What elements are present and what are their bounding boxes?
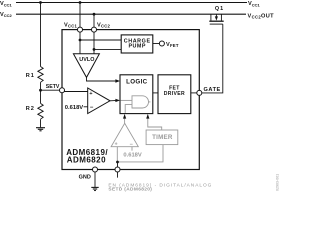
pin GND circle bbox=[93, 167, 98, 172]
wire VCC2 pin drop bbox=[93, 14, 95, 27]
node dot charge pump feed 2 bbox=[93, 48, 96, 51]
gray stub minus input bbox=[131, 147, 133, 151]
resistor R2 bbox=[38, 103, 43, 119]
rail VCC1 bbox=[16, 2, 247, 4]
charge pump block bbox=[121, 35, 153, 53]
IC boundary box ADM6819/ADM6820 bbox=[62, 30, 199, 170]
wire EN node to pin bbox=[117, 162, 119, 167]
svg-text:VCC1: VCC1 bbox=[248, 1, 261, 7]
resistor R1 bbox=[38, 67, 43, 83]
wire UVLO output bbox=[87, 77, 118, 81]
svg-text:0.618V: 0.618V bbox=[123, 153, 142, 159]
pin VCC2 circle bbox=[92, 27, 97, 32]
node dot rail1 at VCC1 pin branch bbox=[79, 1, 82, 4]
wire between R1 and R2 bbox=[40, 82, 42, 103]
svg-text:GND: GND bbox=[79, 174, 91, 180]
svg-text:VFET: VFET bbox=[166, 42, 179, 48]
arrow UVLO into LOGIC bbox=[115, 79, 120, 82]
node dot rail2 at VCC2 pin branch bbox=[93, 13, 96, 16]
wire R1 branch from rail1 bbox=[40, 3, 42, 67]
svg-text:−: − bbox=[90, 105, 94, 111]
wire VCC2 inside drop to UVLO bbox=[93, 32, 95, 54]
wire VCC1 pin drop bbox=[79, 3, 81, 28]
svg-text:SETD (ADM6820): SETD (ADM6820) bbox=[108, 186, 152, 192]
FET DRIVER block bbox=[158, 75, 191, 114]
node dot charge pump feed 1 bbox=[79, 39, 82, 42]
svg-text:VCC2: VCC2 bbox=[97, 22, 111, 28]
LOGIC block bbox=[120, 75, 153, 114]
ground (R2) bbox=[36, 128, 45, 131]
svg-text:VCC2: VCC2 bbox=[0, 12, 13, 18]
pin EN circle bbox=[115, 167, 120, 172]
svg-text:R2: R2 bbox=[26, 106, 35, 112]
arrow comparator into LOGIC bottom bbox=[123, 114, 126, 119]
Q1 source stub bbox=[210, 14, 212, 20]
pin GATE circle bbox=[197, 90, 202, 95]
wire EN pin stub below bbox=[117, 172, 119, 178]
gray AND output stub bbox=[149, 101, 151, 103]
pin VCC1 circle bbox=[78, 27, 83, 32]
gray wire comparator apex up bbox=[124, 118, 126, 123]
svg-text:0.618V: 0.618V bbox=[65, 105, 84, 111]
Q1 body arrow bbox=[215, 14, 217, 17]
arrow comparator into LOGIC bbox=[115, 99, 120, 102]
wire tap to SETV pin bbox=[41, 89, 60, 91]
node dot EN bbox=[116, 161, 119, 164]
rail VCC2 bbox=[16, 13, 246, 15]
pin SETV circle bbox=[60, 88, 65, 93]
svg-text:+: + bbox=[115, 141, 118, 147]
gray wire TIMER top to LOGIC bbox=[148, 118, 162, 130]
svg-text:+: + bbox=[89, 91, 92, 97]
node dot SETV tap bbox=[39, 89, 42, 92]
arrow TIMER into LOGIC bottom bbox=[146, 114, 149, 119]
svg-text:TIMER: TIMER bbox=[152, 134, 173, 141]
wire to charge pump input 2 bbox=[94, 48, 121, 50]
svg-text:VCC2OUT: VCC2OUT bbox=[248, 13, 275, 19]
svg-text:LOGIC: LOGIC bbox=[126, 79, 148, 86]
gray wire inside LOGIC to AND bottom input bbox=[125, 105, 132, 113]
wire charge pump output bbox=[153, 43, 160, 45]
ground (GND pin) bbox=[91, 187, 98, 190]
svg-text:SETV: SETV bbox=[46, 84, 60, 90]
UVLO comparator triangle bbox=[73, 54, 99, 78]
node dot rail1 at R1 branch bbox=[39, 1, 42, 4]
svg-text:02903-001: 02903-001 bbox=[276, 174, 280, 191]
Q1 channel bar bbox=[209, 20, 223, 22]
TIMER block bbox=[146, 130, 178, 145]
wire FET DRIVER to GATE pin bbox=[191, 92, 197, 94]
pin VFET circle bbox=[159, 41, 164, 46]
wire reference to comparator minus input bbox=[84, 106, 88, 108]
Q1 gate bar bbox=[210, 23, 223, 25]
svg-text:DRIVER: DRIVER bbox=[164, 91, 185, 97]
gray comparator (EN/SETD) bbox=[111, 123, 138, 146]
svg-text:UVLO: UVLO bbox=[79, 57, 94, 63]
wire R2 to ground bbox=[40, 119, 42, 127]
wire LOGIC to FET DRIVER bbox=[153, 92, 158, 94]
wire VCC1 inside drop to UVLO bbox=[79, 32, 81, 54]
svg-text:PUMP: PUMP bbox=[129, 44, 146, 50]
wire to charge pump input 1 bbox=[80, 39, 121, 41]
comparator U1 triangle bbox=[88, 88, 110, 114]
svg-text:Q1: Q1 bbox=[215, 6, 224, 12]
wire SETV to comparator plus input bbox=[65, 91, 88, 93]
wire GND pin down bbox=[94, 172, 96, 187]
AND gate inside LOGIC bbox=[132, 96, 148, 108]
gray wire TIMER bottom to EN node bbox=[119, 145, 163, 162]
svg-text:VCC1: VCC1 bbox=[0, 1, 13, 7]
Q1 drain stub bbox=[220, 14, 222, 20]
gray wire inside LOGIC to AND top input bbox=[121, 99, 132, 101]
wire GATE to Q1 gate bbox=[202, 24, 223, 93]
svg-text:VCC1: VCC1 bbox=[64, 22, 78, 28]
transistor Q1 bbox=[209, 6, 224, 24]
wire comparator output bbox=[110, 99, 117, 101]
svg-text:ADM6820: ADM6820 bbox=[67, 155, 106, 164]
gray wire plus input down to EN node bbox=[116, 147, 118, 162]
svg-text:GATE: GATE bbox=[204, 87, 221, 93]
svg-text:R1: R1 bbox=[26, 73, 35, 79]
